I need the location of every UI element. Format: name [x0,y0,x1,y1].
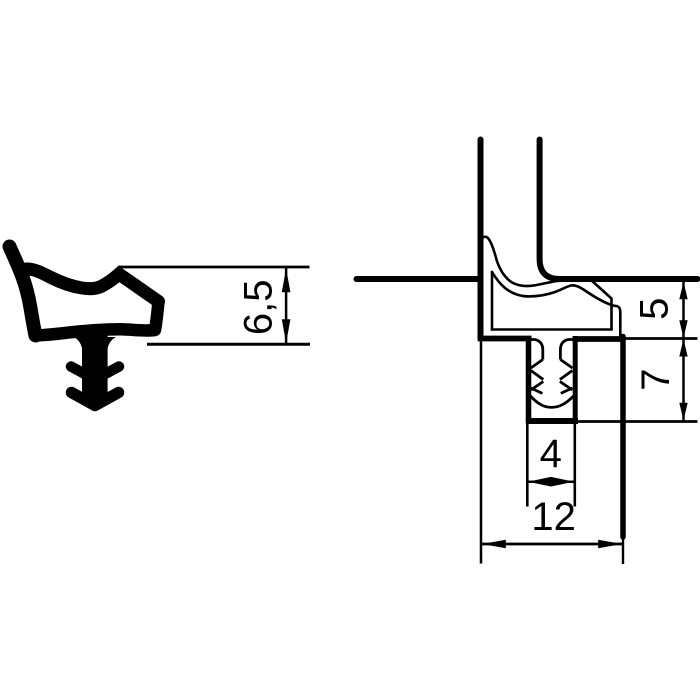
arrowhead 7 up [679,339,687,357]
svg-text:12: 12 [531,495,576,539]
dimension line 12 [482,543,623,546]
seal flipper lip and left wall [10,247,36,336]
seal left wall [491,272,494,330]
arrowhead down [282,319,291,343]
extension line 4 left [526,424,529,507]
extension line bottom of 7 [578,420,698,423]
frame gap right line with corner curve [540,140,698,280]
seal flipper upper surface [483,237,591,286]
arrowhead 5 up [679,282,687,300]
foot barb zigzag left [531,360,543,369]
extension line 12 right [622,537,624,564]
svg-text:6,5: 6,5 [236,279,280,335]
dimension line 6,5 [285,268,288,344]
foot bottom U [530,396,573,407]
svg-text:7: 7 [634,368,678,390]
seal right wall and bottom wall [36,302,159,336]
anchor arrow tip (bottom) [72,393,119,406]
arrowhead 12 left [482,540,506,549]
extension line 5/7 boundary [622,337,698,340]
arrowhead up [282,268,291,292]
svg-text:4: 4 [540,432,562,476]
groove bottom [526,418,578,424]
foot left arch [531,340,543,360]
extension line bottom [147,343,310,346]
seal bottom [492,328,612,331]
seal outer right wall [617,306,620,335]
anchor barb pair (upper chevron) [71,367,119,380]
seal top wall and top-right slant [26,269,159,302]
extension line 12 left [480,342,483,564]
seal inner slant to inner right wall [591,280,612,330]
frame gap left line [478,140,484,339]
frame right edge [620,337,626,538]
arrowhead 12 right [598,540,622,549]
dimension line 5 [682,282,685,339]
frame face line left [354,276,360,282]
svg-text:5: 5 [633,298,677,320]
dimension line 4 with lens arrows [528,480,574,483]
groove left wall [526,336,532,421]
rebate floor right of groove [573,336,624,342]
extension line 4 right [573,424,576,507]
foot right arch [560,340,572,360]
arrowhead 7 down [679,403,687,421]
extension line top [118,266,310,269]
seal anchor stem [82,331,108,402]
stem root fillet [74,337,116,350]
seal body top surface [492,272,617,306]
groove right wall [573,336,578,421]
arrowhead 5 down [679,320,687,338]
dimension line 7 [682,339,685,421]
rebate floor left of groove [478,336,532,342]
foot barb zigzag right [560,360,572,369]
